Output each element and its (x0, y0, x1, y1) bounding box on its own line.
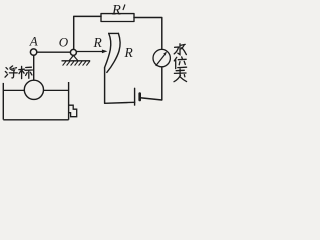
arc resistor R: top cap (109, 32, 119, 34)
lever wire from A to O (37, 51, 71, 53)
pointer arrow shaft from O toward arc (76, 51, 102, 53)
wire: R' right side to top-right corner, down to meter (134, 18, 162, 50)
wire: pivot O up to top-left corner then right to R' (74, 16, 101, 49)
battery cell: long (positive) plate (134, 88, 136, 105)
meter needle (156, 54, 166, 66)
svg-text:A: A (29, 34, 38, 49)
float rod from A down to float (33, 55, 35, 80)
label 位 (hand-drawn strokes) (174, 57, 186, 69)
label 浮 (hand-drawn strokes) (5, 66, 17, 78)
label 表 (hand-drawn strokes) (174, 69, 187, 82)
arc resistor R: outer curved edge (107, 33, 120, 72)
ground hatching (63, 61, 90, 65)
tank: water surface line (3, 89, 68, 91)
float (circle on water) (24, 80, 43, 99)
resistor R' (box) (101, 14, 134, 22)
pointer arrowhead (102, 50, 108, 54)
wire: battery left plate to bottom-left corner, up to arc resistor (105, 68, 135, 103)
hinge circle A (30, 49, 36, 55)
drain valve on right wall (69, 105, 77, 117)
meter (water level gauge) body (153, 49, 170, 66)
svg-text:O: O (59, 34, 69, 49)
pivot support triangle (69, 55, 78, 60)
arc resistor R: inner curved edge (105, 33, 111, 67)
ground line under pivot (62, 60, 91, 62)
svg-text:R: R (93, 35, 103, 50)
tank: left wall (2, 83, 4, 120)
tank: right wall (68, 82, 70, 120)
prime mark of R' (123, 5, 125, 10)
battery cell: short (negative) plate (138, 94, 141, 101)
svg-text:R: R (111, 3, 121, 19)
paper background (0, 0, 189, 126)
label 标 (hand-drawn strokes) (19, 66, 33, 78)
wire: meter bottom down, then left to battery positive plate (141, 67, 162, 100)
label 水 (hand-drawn strokes) (174, 44, 186, 55)
meter needle arrowhead (163, 52, 167, 56)
tank: bottom (3, 119, 68, 121)
svg-text:R: R (124, 45, 134, 60)
pivot circle O (70, 49, 76, 55)
